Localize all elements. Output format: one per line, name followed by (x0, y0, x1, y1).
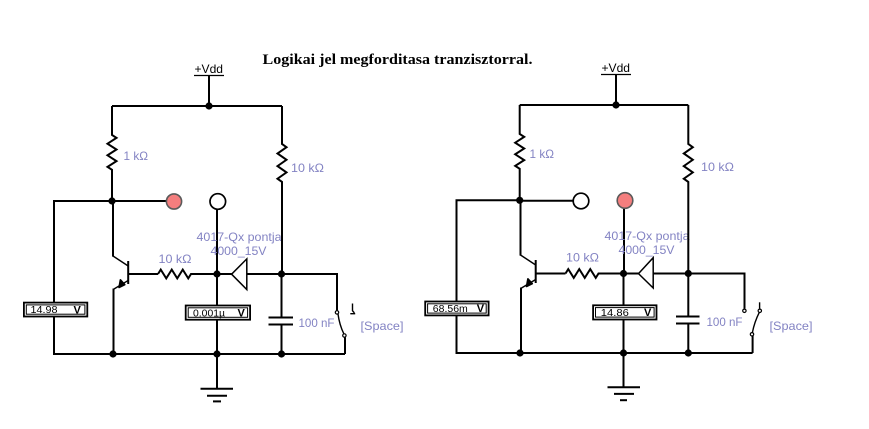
svg-text:4000_15V: 4000_15V (211, 244, 267, 258)
node capacitor-rail junction (left) (278, 350, 285, 357)
buffer U2 triangle (right) (639, 258, 654, 288)
capacitor C2 100 nF (right) (676, 274, 700, 354)
wire left meter branch (left) (54, 201, 112, 354)
svg-text:10 kΩ: 10 kΩ (291, 161, 324, 175)
meter VM3 68.56m V (right collector) (425, 302, 488, 316)
wire base node down to ground rail (right) (623, 274, 625, 354)
ground (right) (608, 353, 641, 400)
capacitor C1 100 nF (left) (269, 274, 294, 354)
wire top rail (right) (520, 104, 689, 106)
indicator red LED (right) (617, 193, 633, 209)
switch S2 (right, open) (688, 274, 761, 354)
node emitter-rail junction (left) (109, 350, 116, 357)
wire bottom rail (right) (457, 352, 753, 354)
svg-text:0.001µ: 0.001µ (193, 308, 225, 319)
resistor R5 10 kOhm base (right) (566, 269, 624, 278)
svg-text:10 kΩ: 10 kΩ (566, 251, 599, 265)
wire base node up to red indicator (623, 209, 625, 274)
svg-text:14.98: 14.98 (31, 305, 58, 316)
svg-text:V: V (644, 307, 652, 319)
wire left meter branch (right) (457, 200, 520, 353)
power +Vdd label (left) (194, 62, 224, 76)
svg-text:4017-Qx pontja: 4017-Qx pontja (197, 230, 282, 244)
resistor R1 1 kOhm (left) (108, 106, 117, 201)
wire base node to buffer tip (right) (624, 273, 639, 275)
svg-text:+Vdd: +Vdd (195, 62, 224, 76)
indicator white lamp (left) (210, 194, 226, 210)
wire buffer to switch node (right) (653, 273, 688, 275)
meter VM1 14.98 V (left collector) (24, 303, 87, 317)
wire base (left) (128, 273, 158, 275)
wire Vdd stem (right) (615, 75, 617, 106)
resistor R2 10 kOhm base (left) (158, 270, 217, 279)
wire Vdd stem (left) (208, 76, 210, 107)
wire base node up to white indicator (216, 210, 218, 275)
node collector junction (left) (108, 197, 115, 204)
svg-text:10 kΩ: 10 kΩ (701, 160, 734, 174)
resistor R6 10 kOhm pullup (right) (684, 105, 693, 274)
node switch junction (right) (685, 270, 692, 277)
svg-text:1 kΩ: 1 kΩ (530, 147, 555, 161)
node ground junction (right) (620, 349, 627, 356)
node collector junction (right) (516, 197, 523, 204)
node ground junction (left) (213, 350, 220, 357)
resistor R3 10 kOhm pullup (left) (278, 106, 287, 274)
svg-text:[Space]: [Space] (361, 319, 404, 333)
node capacitor-rail junction (right) (685, 349, 692, 356)
node emitter-rail junction (right) (516, 349, 523, 356)
wire top rail (left) (112, 105, 282, 107)
svg-text:100 nF: 100 nF (299, 316, 335, 330)
transistor Q2 (521, 200, 536, 353)
node base junction (left) (213, 270, 220, 277)
meter VM2 0.001u V (left base) (186, 306, 250, 320)
indicator red LED (left) (166, 194, 181, 209)
svg-text:Logikai jel megforditasa tranz: Logikai jel megforditasa tranzisztorral. (263, 52, 533, 68)
switch S1 (left, closed) (282, 274, 356, 354)
indicator white lamp (right) (573, 193, 589, 209)
svg-text:V: V (74, 304, 82, 316)
node Vdd junction (left) (205, 102, 212, 109)
wire base (right) (536, 273, 566, 275)
ground (left) (201, 354, 234, 401)
svg-text:4000_15V: 4000_15V (619, 243, 675, 257)
svg-text:4017-Qx pontja: 4017-Qx pontja (605, 229, 690, 243)
svg-text:1 kΩ: 1 kΩ (124, 149, 149, 163)
svg-text:V: V (238, 308, 246, 320)
power +Vdd label (right) (601, 61, 631, 75)
node base junction (right) (620, 270, 627, 277)
transistor Q1 (113, 201, 128, 354)
svg-text:+Vdd: +Vdd (602, 61, 631, 75)
svg-text:V: V (477, 303, 485, 315)
node switch junction (left) (278, 270, 285, 277)
meter VM4 14.86 V (right base) (593, 305, 656, 319)
wire buffer to switch node (left) (247, 273, 282, 275)
wire collector node to white indicator (520, 200, 573, 202)
wire bottom rail (left) (54, 353, 345, 355)
svg-text:10 kΩ: 10 kΩ (159, 252, 192, 266)
svg-text:[Space]: [Space] (770, 319, 813, 333)
wire base node down to ground rail (left) (216, 274, 218, 354)
buffer U1 triangle (left) (232, 259, 247, 290)
resistor R4 1 kOhm (right) (515, 105, 524, 200)
wire base node to buffer tip (217, 273, 232, 275)
svg-text:14.86: 14.86 (601, 308, 629, 319)
svg-text:100 nF: 100 nF (707, 315, 743, 329)
wire collector node to red indicator (112, 200, 167, 202)
node Vdd junction (right) (612, 101, 619, 108)
svg-text:68.56m: 68.56m (433, 304, 468, 315)
